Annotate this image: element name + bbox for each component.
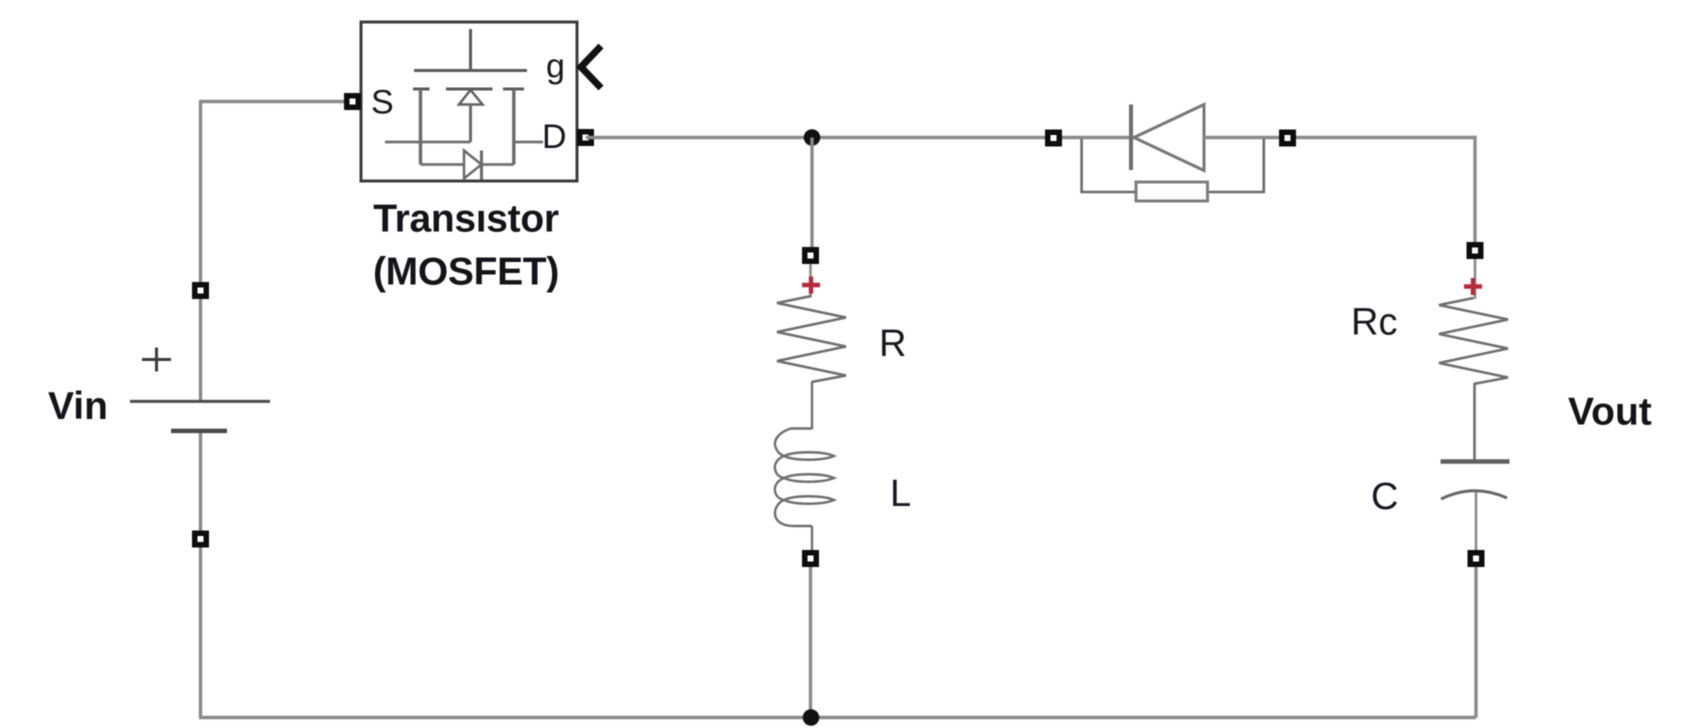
polarity plus mark red (Rc) bbox=[1464, 278, 1482, 295]
label Rc bbox=[1351, 302, 1397, 344]
battery Vin minus plate (short) bbox=[171, 429, 227, 434]
pin label g bbox=[546, 48, 565, 86]
pin label S bbox=[371, 84, 394, 122]
port square Vin top bbox=[192, 282, 209, 299]
mosfet top lead bbox=[469, 29, 472, 71]
mosfet body-diode loop left segment bbox=[421, 163, 465, 166]
port square diode right bbox=[1279, 130, 1296, 147]
pin label D bbox=[542, 118, 567, 156]
label Transistor (MOSFET) bbox=[373, 198, 559, 294]
mosfet source vertical conductor bbox=[419, 89, 422, 165]
wire diode cathode side to right port bbox=[1204, 136, 1475, 139]
svg-text:Transıstor: Transıstor bbox=[373, 198, 559, 241]
mosfet body vertical line bbox=[469, 105, 472, 143]
mosfet drain horizontal line bbox=[514, 141, 543, 144]
svg-text:Rc: Rc bbox=[1351, 302, 1397, 344]
gate signal chevron arrow bbox=[581, 46, 601, 88]
transistor U1 MOSFET block box bbox=[361, 22, 577, 181]
port square Rc top bbox=[1467, 242, 1484, 259]
resistor Rc zigzag bbox=[1439, 298, 1508, 384]
diode D1 cathode bar bbox=[1129, 105, 1133, 171]
mosfet body-diode loop right segment bbox=[482, 163, 514, 166]
mosfet channel dash middle bbox=[446, 88, 493, 91]
label L bbox=[890, 473, 911, 515]
snubber bypass wire right bbox=[1208, 139, 1264, 192]
svg-text:D: D bbox=[542, 118, 567, 156]
wire Rc to capacitor bbox=[1473, 384, 1476, 461]
wire R branch top bbox=[810, 138, 813, 256]
port square D bbox=[577, 129, 594, 146]
wire between R and L bbox=[811, 382, 813, 429]
capacitor C bottom curved plate bbox=[1441, 491, 1507, 499]
wire left vertical lower (Vin bottom lead to ground bus) bbox=[199, 431, 202, 718]
wire capacitor to bottom port bbox=[1475, 492, 1478, 551]
label C bbox=[1371, 476, 1398, 518]
resistor R zigzag bbox=[777, 296, 846, 382]
port square S bbox=[344, 93, 361, 110]
snubber resistor rectangle bbox=[1136, 182, 1208, 201]
svg-text:C: C bbox=[1371, 476, 1398, 518]
mosfet channel dash left bbox=[413, 88, 430, 91]
label Vout bbox=[1568, 391, 1652, 434]
mosfet body diode triangle bbox=[464, 151, 482, 179]
svg-text:L: L bbox=[890, 473, 911, 515]
wire right branch vertical top bbox=[1473, 136, 1476, 250]
svg-text:g: g bbox=[546, 48, 565, 86]
wire C port to ground bus bbox=[1474, 567, 1477, 718]
wire from D port to diode anode bbox=[586, 136, 1134, 139]
svg-text:Vout: Vout bbox=[1568, 391, 1652, 434]
wire bottom ground bus bbox=[199, 716, 1476, 719]
battery polarity plus sign bbox=[142, 348, 171, 372]
wire top-left horizontal from Vin branch to S port bbox=[199, 100, 352, 103]
wire L port to ground bus bbox=[809, 567, 812, 718]
mosfet body diode bar bbox=[480, 151, 483, 180]
svg-text:R: R bbox=[879, 323, 906, 365]
capacitor C top plate bbox=[1441, 459, 1510, 464]
wire Rc port to resistor bbox=[1474, 259, 1477, 299]
node junction dot top bbox=[804, 129, 821, 146]
mosfet channel dash right bbox=[503, 88, 524, 91]
diode D1 triangle bbox=[1134, 105, 1204, 171]
polarity plus mark red (R) bbox=[802, 277, 820, 294]
port square C bottom bbox=[1468, 550, 1485, 567]
wire left vertical upper (Vin top lead) bbox=[199, 102, 202, 402]
port square R top bbox=[802, 247, 819, 264]
label R bbox=[879, 323, 906, 365]
inductor L coil bbox=[775, 429, 834, 527]
node junction dot bottom bbox=[803, 709, 820, 726]
svg-text:Vin: Vin bbox=[48, 385, 108, 428]
mosfet drain-side vertical conductor bbox=[512, 89, 515, 165]
mosfet gate bar bbox=[414, 69, 527, 72]
wire L to bottom port bbox=[811, 526, 813, 551]
port square Vin bottom bbox=[192, 531, 209, 548]
snubber bypass wire left bbox=[1082, 139, 1136, 192]
battery Vin plus plate (long) bbox=[130, 400, 270, 403]
port square L bottom bbox=[802, 550, 819, 567]
port square diode left bbox=[1045, 130, 1062, 147]
svg-text:S: S bbox=[371, 84, 394, 122]
mosfet source horizontal line bbox=[385, 141, 471, 144]
wire R port to resistor bbox=[809, 264, 812, 297]
svg-text:(MOSFET): (MOSFET) bbox=[373, 251, 559, 294]
label Vin bbox=[48, 385, 108, 428]
mosfet body arrow bbox=[459, 90, 483, 105]
